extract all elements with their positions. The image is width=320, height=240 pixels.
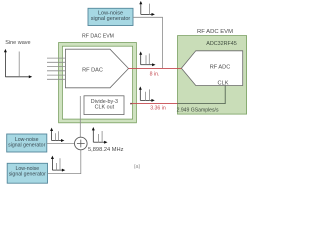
label (a) [134, 164, 141, 170]
spectrum icon S6 (SG3 tone) [51, 156, 65, 172]
label RF ADC EVM [197, 29, 233, 35]
label Sine wave [5, 40, 30, 46]
RF DAC converter [65, 49, 128, 88]
svg-text:Sine wave: Sine wave [5, 40, 30, 46]
svg-text:2.949 GSamples/s: 2.949 GSamples/s [177, 107, 219, 113]
svg-text:CLK out: CLK out [95, 105, 115, 111]
label 2.949 GSamples/s [177, 107, 219, 113]
RF ADC EVM board U2 [178, 36, 247, 115]
svg-text:5,898.24 MHz: 5,898.24 MHz [88, 147, 124, 153]
svg-text:signal generator: signal generator [91, 16, 131, 22]
svg-text:(a): (a) [134, 164, 141, 170]
spectrum icon S4 (SG2 tone) [50, 128, 64, 142]
svg-text:signal generator: signal generator [9, 172, 46, 178]
DAC input wires (6 parallel) [47, 58, 65, 79]
svg-text:RF ADC EVM: RF ADC EVM [197, 29, 233, 35]
svg-text:RF DAC EVM: RF DAC EVM [82, 33, 114, 39]
spectrum icon S7 (clock spectrum) [139, 86, 155, 102]
spectrum icon S3 (DAC output spectrum) [139, 51, 155, 66]
label RF DAC EVM [82, 33, 114, 39]
wire clock to ADC EVM (red, 3.36 in) [130, 103, 177, 105]
spectrum icon S1 sine wave (single tone) [4, 49, 32, 78]
signal generator SG2 (middle left) [7, 134, 47, 152]
wire SG2 to combiner [47, 142, 75, 144]
signal generator SG3 (bottom left) [7, 163, 47, 183]
wire combiner up to divide-by-3 [79, 96, 81, 137]
wire RF DAC output to RF ADC input (red, 8 in.) [129, 67, 182, 69]
RF DAC EVM board U1 [59, 43, 137, 123]
RF ADC converter [181, 51, 242, 87]
wire clock inside ADC EVM to CLK pin [178, 86, 226, 104]
svg-text:RF DAC: RF DAC [82, 68, 103, 74]
label 8 in. [150, 72, 160, 78]
svg-text:3.36 in: 3.36 in [150, 106, 166, 112]
label ADC32RF45 [206, 41, 237, 47]
svg-text:RF ADC: RF ADC [210, 65, 231, 71]
svg-text:ADC32RF45: ADC32RF45 [206, 41, 237, 47]
spectrum icon S5 (combiner output) [92, 127, 108, 144]
wire SG3 to combiner [48, 150, 81, 174]
power combiner (summer) [75, 137, 88, 150]
spectrum icon S2 (SG1 output tone) [139, 1, 155, 16]
svg-text:CLK: CLK [218, 81, 229, 87]
svg-text:signal generator: signal generator [8, 143, 45, 149]
label 5,898.24 MHz [88, 147, 124, 153]
divide-by-3 clock out block [84, 96, 124, 115]
wire SG1 to ADC input node [133, 17, 163, 68]
label 3.36 in [150, 106, 166, 112]
signal generator SG1 (top) [88, 8, 133, 25]
svg-text:8 in.: 8 in. [150, 72, 160, 78]
